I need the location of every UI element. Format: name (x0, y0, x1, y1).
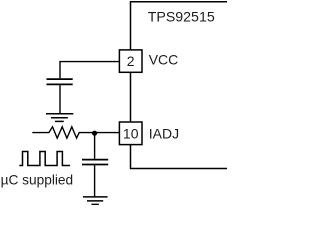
svg-text:µC supplied: µC supplied (1, 173, 74, 188)
svg-text:2: 2 (127, 53, 135, 69)
svg-text:TPS92515: TPS92515 (148, 10, 215, 26)
svg-text:IADJ: IADJ (149, 126, 179, 142)
svg-text:VCC: VCC (149, 51, 179, 67)
svg-text:10: 10 (123, 125, 139, 141)
